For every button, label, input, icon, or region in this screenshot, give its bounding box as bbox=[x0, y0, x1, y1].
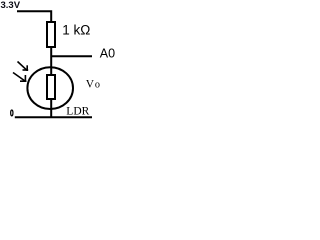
svg-text:LDR: LDR bbox=[66, 106, 89, 118]
wire branch to A0 bbox=[51, 55, 92, 57]
svg-text:1 kΩ: 1 kΩ bbox=[62, 23, 90, 38]
LDR resistor body bbox=[47, 75, 55, 99]
svg-text:3.3V: 3.3V bbox=[1, 0, 21, 11]
wire from 3.3V to resistor R1 top bbox=[17, 11, 51, 22]
LDR circle outline bbox=[27, 67, 73, 109]
light arrow 1 bbox=[18, 62, 29, 72]
ground wire bbox=[15, 116, 92, 118]
svg-text:A0: A0 bbox=[100, 47, 115, 61]
light arrow 2 bbox=[13, 73, 27, 82]
node 0 label bbox=[11, 110, 13, 116]
resistor R1 body bbox=[47, 22, 55, 47]
svg-text:Vo: Vo bbox=[86, 79, 100, 91]
wire vertical resistor bottom to ground through LDR bbox=[50, 47, 52, 117]
